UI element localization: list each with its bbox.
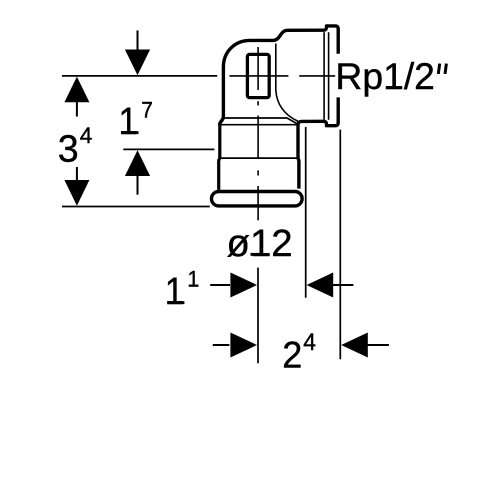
dim 1.1 tail left xyxy=(210,284,230,286)
dim 1.1 tail right xyxy=(333,284,354,286)
label Rp1/2 prime mark 1 xyxy=(438,64,439,74)
label 1.1 one base bar xyxy=(168,301,185,304)
press socket shoulder xyxy=(222,118,299,124)
thread line outer xyxy=(328,32,330,120)
svg-text:1: 1 xyxy=(119,99,138,142)
label diameter one base bar xyxy=(251,253,264,256)
label 2 superscript 4 xyxy=(282,334,302,376)
label diameter 12 xyxy=(227,222,293,265)
svg-text:3: 3 xyxy=(58,128,79,170)
dim 1.7 tail top xyxy=(137,30,139,50)
press indicator window rectangle xyxy=(247,54,269,97)
vertical centerline segment 1 xyxy=(257,47,259,90)
dim 2.4 extension right xyxy=(339,130,341,360)
press socket rim line xyxy=(218,124,298,126)
svg-text:7: 7 xyxy=(141,98,153,123)
dim 1.7 arrow up xyxy=(125,150,150,176)
press socket left wall xyxy=(219,124,220,189)
dim 2.4 tail left xyxy=(213,344,230,346)
elbow body outline xyxy=(220,26,338,125)
svg-text:4: 4 xyxy=(80,123,93,148)
press bead xyxy=(212,192,303,206)
label 1 superscript 1 xyxy=(165,269,184,312)
svg-text:2: 2 xyxy=(282,334,302,376)
label Rp1/2 one base bar xyxy=(386,86,400,89)
label 1 superscript 7 xyxy=(119,99,138,142)
label Rp1/2 xyxy=(335,55,435,97)
vertical centerline short dash xyxy=(257,170,259,175)
svg-text:4: 4 xyxy=(303,328,316,355)
press socket intermediate line xyxy=(220,157,297,159)
vertical centerline segment 3 xyxy=(257,186,259,220)
horizontal centerline dash 2 xyxy=(299,75,335,77)
dim 1.1 extension centerline xyxy=(257,268,259,364)
svg-text:1: 1 xyxy=(165,269,184,312)
dim 1.1 arrow left xyxy=(307,273,334,298)
dim 3.4 arrow down xyxy=(64,180,89,206)
horizontal centerline dash 1 xyxy=(229,75,288,77)
dim 3.4 tail top xyxy=(76,102,78,117)
dim 3.4 tail bottom xyxy=(76,167,78,181)
dim 1.7 extension line mid xyxy=(123,148,214,150)
dim 1.1 arrow right xyxy=(230,273,257,298)
svg-text:1: 1 xyxy=(188,267,200,292)
body to socket transition edge xyxy=(276,44,298,122)
svg-text:ø12: ø12 xyxy=(227,222,293,265)
svg-text:Rp1/2: Rp1/2 xyxy=(335,55,435,97)
dim 1.7 tail bottom xyxy=(137,176,139,195)
socket face line lower segment and bottom edge xyxy=(298,97,338,188)
label 1.1 superscript base bar xyxy=(189,285,199,287)
dim 2.4 tail right xyxy=(367,344,389,346)
vertical centerline segment 2 xyxy=(257,101,259,105)
vertical centerline segment 2b xyxy=(257,116,259,160)
dim 2.4 arrow right xyxy=(230,333,257,358)
dim 2.4 arrow left xyxy=(341,333,368,358)
dim 1.1 extension right xyxy=(305,127,307,298)
horizontal centerline extension left xyxy=(62,75,217,77)
dim 1.7 arrow down xyxy=(125,50,150,76)
dim 3.4 extension line bottom xyxy=(62,206,210,208)
thread line inner xyxy=(323,32,325,120)
label Rp1/2 prime mark 2 xyxy=(445,64,446,74)
label 3 superscript 4 xyxy=(58,128,79,170)
label 1.7 one base bar xyxy=(122,131,139,134)
dim 3.4 arrow up xyxy=(64,77,89,103)
